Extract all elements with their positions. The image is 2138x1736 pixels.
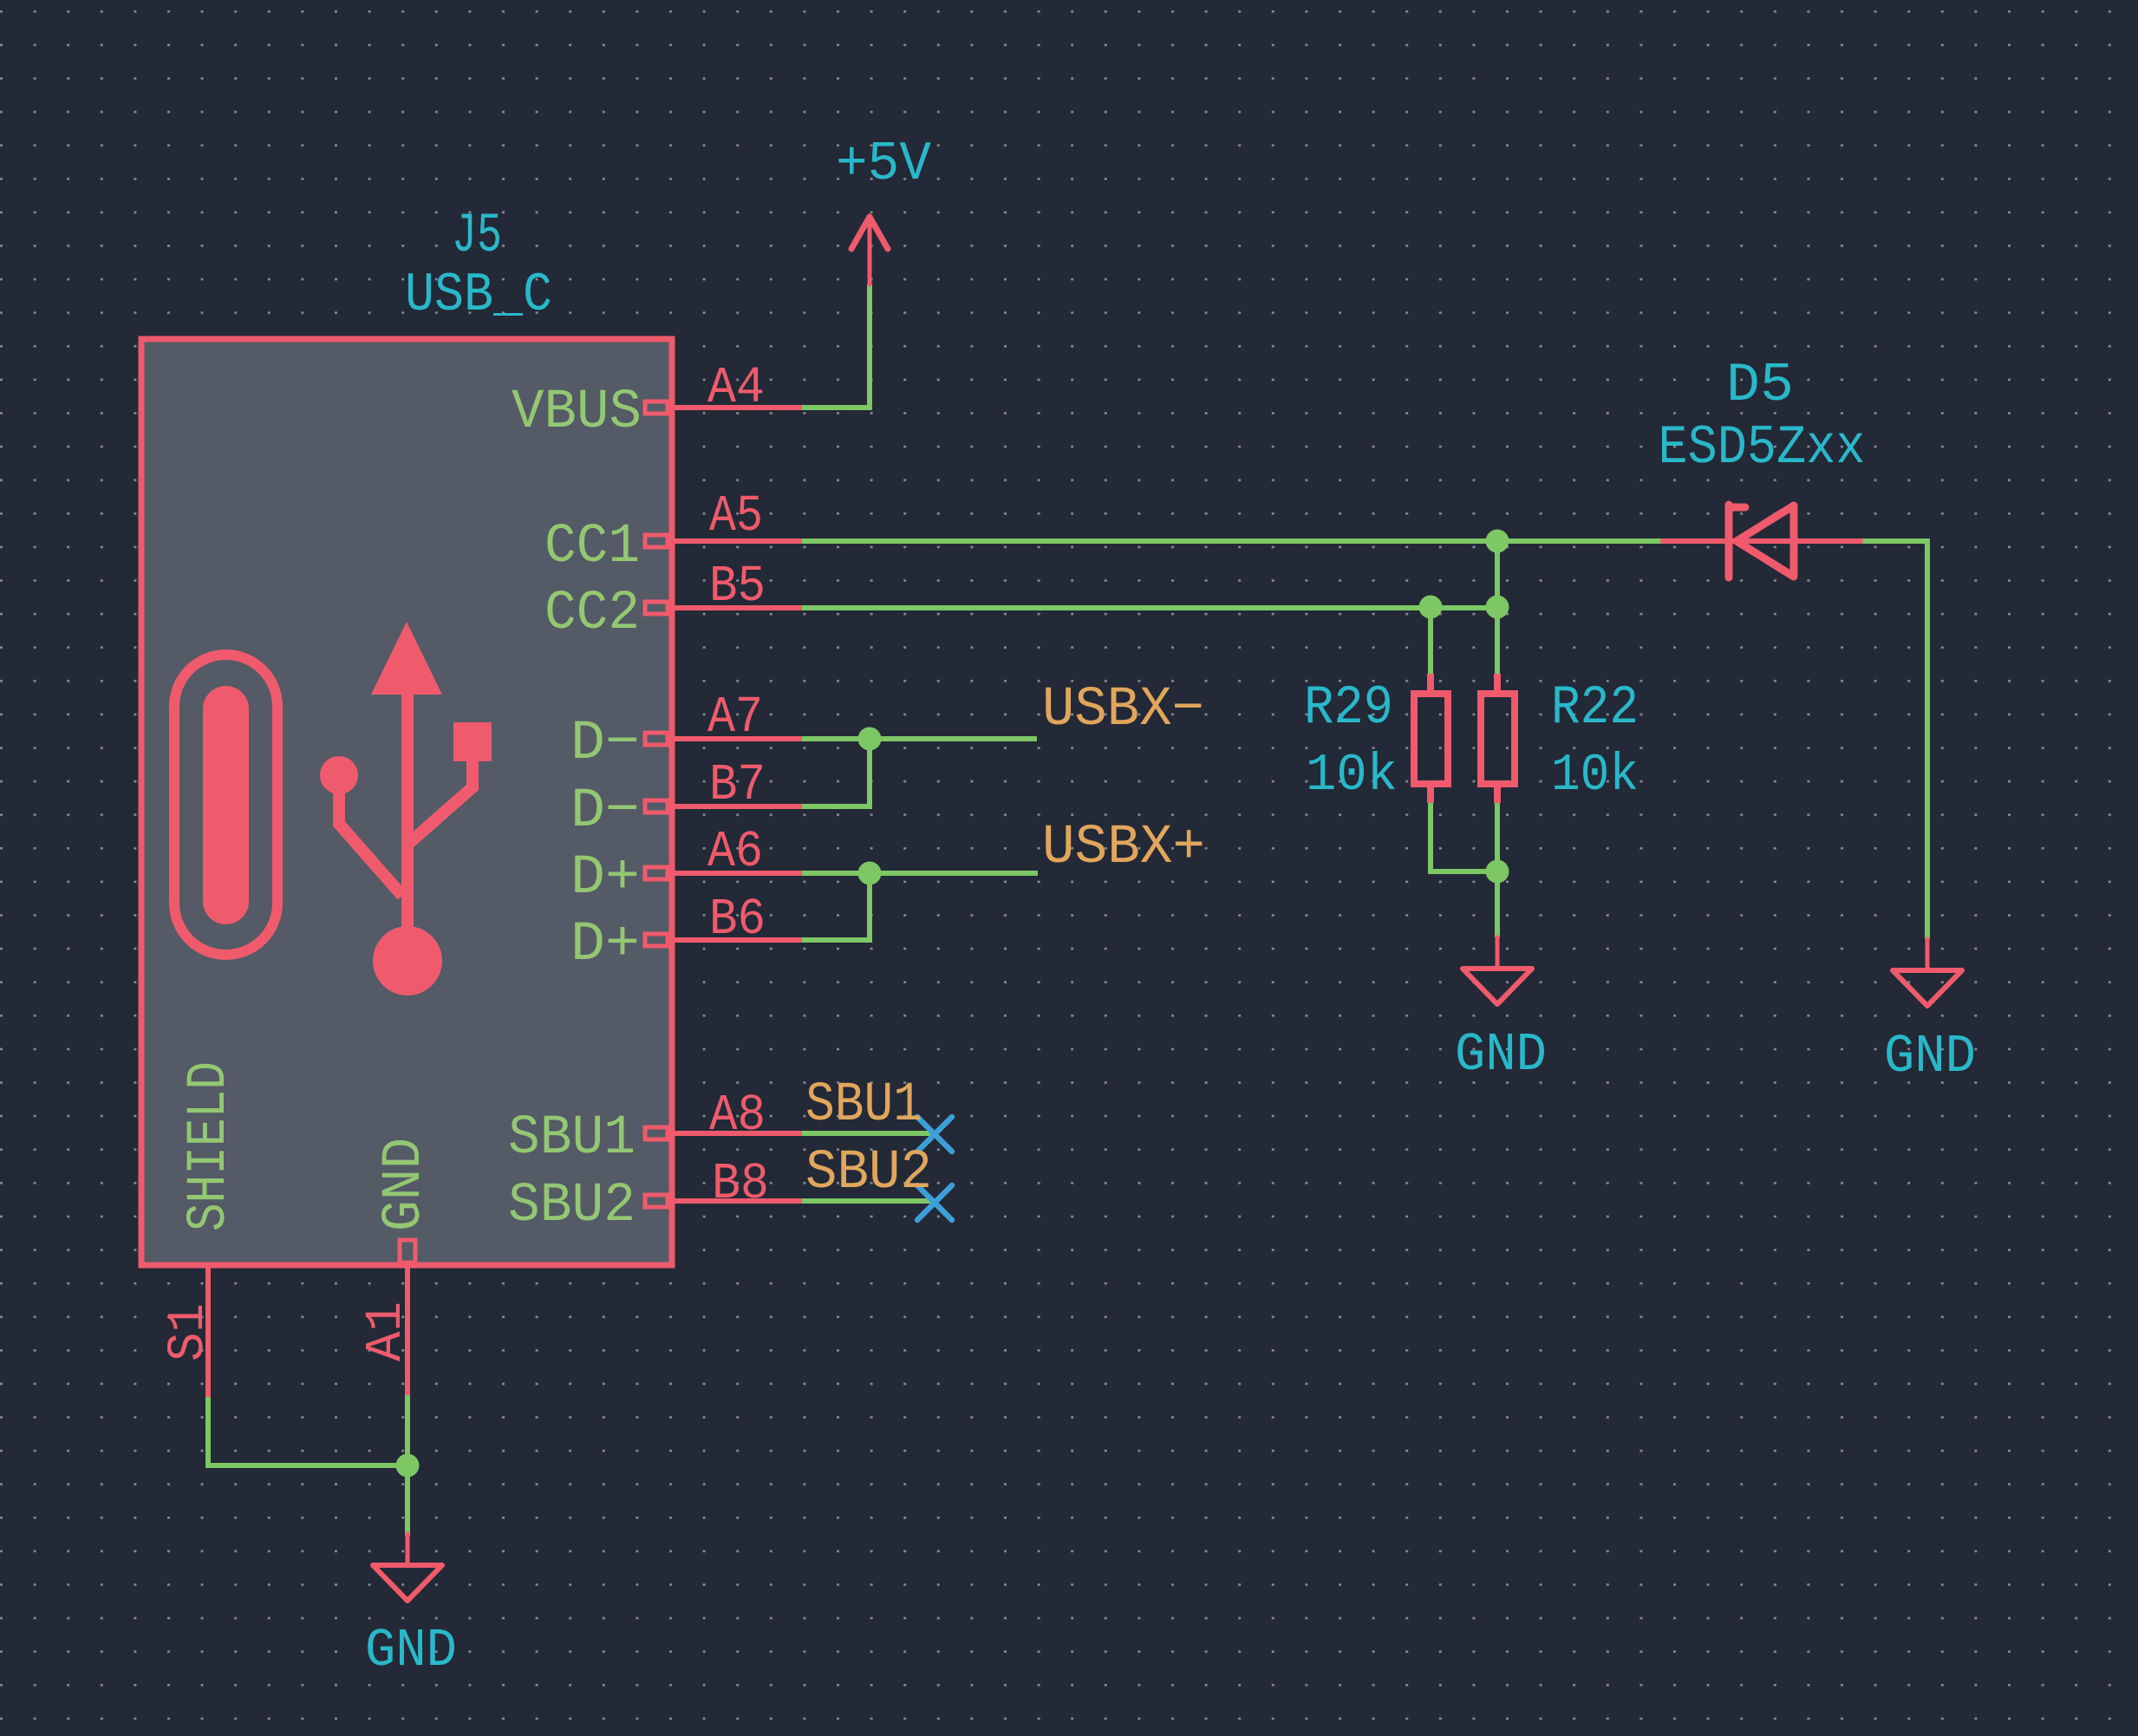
svg-text:+5V: +5V xyxy=(836,134,931,195)
svg-text:B7: B7 xyxy=(709,756,766,814)
svg-text:SBU2: SBU2 xyxy=(805,1142,932,1204)
wire CC2 junction to R29 xyxy=(1428,608,1433,674)
svg-text:GND: GND xyxy=(374,1138,436,1231)
resistor R29 xyxy=(1414,674,1448,803)
svg-text:A6: A6 xyxy=(707,823,763,881)
svg-text:B8: B8 xyxy=(712,1155,769,1213)
wire CC2 net xyxy=(802,605,1497,610)
wire D- B7 link xyxy=(802,739,870,806)
wire SBU2 stub xyxy=(802,1198,932,1204)
svg-text:GND: GND xyxy=(365,1620,457,1681)
svg-text:A1: A1 xyxy=(357,1302,415,1361)
svg-text:ESD5Zxx: ESD5Zxx xyxy=(1659,417,1866,479)
wire mid GND drop xyxy=(1495,871,1500,937)
pin D+ B6 xyxy=(645,934,802,946)
ground symbol middle xyxy=(1463,937,1532,1004)
svg-text:D−: D− xyxy=(570,713,640,775)
svg-text:B5: B5 xyxy=(709,558,766,616)
junction CC1/R22 xyxy=(1486,530,1509,553)
svg-text:10k: 10k xyxy=(1551,747,1639,806)
resistor R22 xyxy=(1481,674,1515,803)
wire SBU1 stub xyxy=(802,1131,932,1136)
wire A1 GND drop xyxy=(405,1395,410,1536)
svg-text:GND: GND xyxy=(1455,1024,1547,1086)
svg-text:D+: D+ xyxy=(570,847,640,910)
junction shield/gnd xyxy=(396,1454,420,1478)
svg-text:A5: A5 xyxy=(709,487,763,545)
svg-text:A7: A7 xyxy=(707,689,763,747)
svg-text:SBU1: SBU1 xyxy=(805,1074,922,1137)
wire R29 bottom xyxy=(1431,803,1497,871)
svg-text:GND: GND xyxy=(1884,1026,1976,1087)
wire D+ A6 net xyxy=(802,871,1038,876)
svg-text:A4: A4 xyxy=(707,359,765,417)
no-connect X SBU2 xyxy=(917,1185,952,1220)
pin SHIELD S1 xyxy=(205,1265,211,1397)
wire R22 bottom xyxy=(1495,803,1500,871)
power symbol +5V xyxy=(851,217,888,284)
wire D+ B6 link xyxy=(802,873,870,940)
USB trident icon xyxy=(320,622,492,995)
svg-text:SBU2: SBU2 xyxy=(508,1175,636,1237)
svg-text:D−: D− xyxy=(570,780,640,843)
svg-text:D5: D5 xyxy=(1726,355,1794,416)
junction D- xyxy=(858,728,882,751)
svg-text:SBU1: SBU1 xyxy=(508,1107,636,1170)
svg-text:J5: J5 xyxy=(452,206,502,268)
pin D- B7 xyxy=(645,800,802,813)
pin SBU1 A8 xyxy=(645,1127,802,1139)
pin CC2 B5 xyxy=(645,602,802,614)
pin SBU2 B8 xyxy=(645,1195,802,1207)
pin GND A1 xyxy=(400,1240,415,1395)
pin VBUS A4 xyxy=(645,401,802,414)
junction CC2/R22 xyxy=(1486,596,1509,619)
USB-C receptacle icon (stadium) xyxy=(174,655,277,955)
junction CC2/R29 xyxy=(1419,596,1443,619)
wire VBUS to +5V xyxy=(802,284,870,408)
svg-text:A8: A8 xyxy=(709,1087,766,1145)
svg-text:SHIELD: SHIELD xyxy=(179,1061,241,1231)
svg-text:B6: B6 xyxy=(709,891,766,949)
svg-text:USBX+: USBX+ xyxy=(1042,817,1205,879)
pin D+ A6 xyxy=(645,867,802,879)
svg-text:R29: R29 xyxy=(1304,677,1393,739)
wire diode to right GND xyxy=(1861,541,1927,939)
junction R29/R22 bottom xyxy=(1486,860,1509,884)
svg-text:CC1: CC1 xyxy=(544,516,640,578)
svg-text:VBUS: VBUS xyxy=(512,382,642,444)
svg-text:10k: 10k xyxy=(1306,747,1398,806)
svg-text:R22: R22 xyxy=(1551,677,1639,739)
wire SHIELD to ground xyxy=(208,1397,407,1465)
diode D5 xyxy=(1663,505,1861,578)
wire CC1 junction to R22 xyxy=(1495,541,1500,674)
wire D- A7 net xyxy=(802,736,1037,741)
svg-text:USBX−: USBX− xyxy=(1042,679,1204,741)
pin D- A7 xyxy=(645,733,802,745)
no-connect X SBU1 xyxy=(917,1117,952,1152)
junction D+ xyxy=(858,862,882,885)
svg-text:CC2: CC2 xyxy=(544,583,640,645)
svg-text:D+: D+ xyxy=(570,914,640,976)
svg-text:S1: S1 xyxy=(160,1303,218,1361)
wire CC1 net xyxy=(802,538,1663,544)
pin CC1 A5 xyxy=(645,535,802,547)
ground symbol left xyxy=(373,1534,442,1601)
ground symbol right xyxy=(1893,939,1962,1006)
connector J5 body xyxy=(141,339,672,1265)
svg-text:USB_C: USB_C xyxy=(405,264,552,326)
